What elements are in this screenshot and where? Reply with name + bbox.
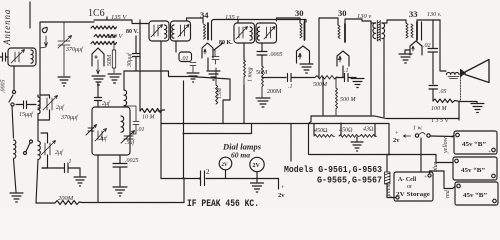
tube 30b filament (337, 51, 349, 66)
wire to right ground (459, 101, 477, 103)
svg-text:+: + (488, 150, 491, 155)
capacitor .0005 (antenna series) (0, 53, 8, 61)
rail lower mid (184, 124, 252, 134)
gang capacitor section 1 (370uuf) (43, 96, 58, 111)
antenna coupling squiggle (42, 27, 47, 32)
tube 1C6 filament (92, 48, 104, 66)
svg-text:100 M: 100 M (431, 106, 448, 112)
wire bottom rail to blue (389, 155, 453, 163)
capacitor .1 (cathode) (56, 164, 76, 173)
variable capacitor .5uf in box (121, 131, 135, 144)
coil antenna box (31, 50, 33, 63)
tube 33 plate (416, 22, 418, 40)
resistor 450 ohm a (314, 135, 335, 138)
resistor 1 meg (244, 60, 246, 85)
wire grid lead 30b (319, 18, 338, 55)
T1 secondary variable cap (178, 25, 189, 38)
battery box 3 (455, 182, 498, 205)
svg-text:50M: 50M (107, 54, 113, 66)
filament network box (309, 116, 390, 155)
junction dot avc (322, 77, 324, 79)
wire 15M bottom to rail (223, 100, 230, 124)
wire cap .1 tail (42, 168, 80, 176)
wire red (430, 171, 456, 189)
svg-text:yellow: yellow (443, 137, 449, 154)
resistor 43 ohm (360, 135, 377, 138)
variable capacitor in antenna box (11, 50, 25, 64)
svg-text:red: red (445, 189, 451, 198)
T2 secondary coil (257, 27, 259, 40)
lamp 2 (250, 157, 264, 171)
wire junction down (322, 78, 324, 116)
wire box right edge (388, 124, 390, 155)
T1 primary box (149, 21, 169, 41)
switch 1w contact a (415, 134, 418, 137)
svg-text:80 V.: 80 V. (126, 29, 139, 35)
ground under .0025 (113, 187, 127, 196)
wire avc to cap (336, 77, 340, 79)
wire coil top (123, 71, 125, 90)
switch wave band contact a (24, 152, 27, 155)
junction dot resistor chain (340, 123, 342, 125)
gang capacitor section 2 (41, 141, 56, 156)
tube 30a filament (297, 46, 310, 63)
svg-text:500 M: 500 M (340, 97, 357, 103)
svg-text:G-9565,G-9567: G-9565,G-9567 (317, 175, 382, 186)
switch 1w lever (419, 133, 425, 135)
svg-text:45v “B”: 45v “B” (462, 141, 486, 148)
svg-text:.02: .02 (423, 43, 431, 49)
speaker driver (461, 70, 466, 77)
svg-text:500M: 500M (313, 82, 328, 88)
junction lamp bus dot (199, 178, 201, 180)
wire T2 sec top to grid (277, 18, 301, 23)
coil L2 oscillator antenna (38, 97, 40, 114)
svg-text:2μf: 2μf (102, 100, 111, 107)
switch lever (9, 95, 13, 102)
capacitor 15uuf (16, 101, 34, 109)
svg-text:15M: 15M (217, 87, 223, 99)
wire T2 sec bottom (261, 43, 263, 51)
filament arrow 30b (338, 56, 341, 62)
svg-text:370μμf: 370μμf (65, 46, 84, 53)
speaker coil (447, 72, 460, 74)
antenna tuning box (8, 48, 36, 66)
T1 secondary coil (172, 25, 174, 38)
tube 33 envelope (421, 22, 423, 40)
ground under L1 (10, 193, 23, 202)
wire primary top (362, 19, 376, 39)
svg-text:2μf: 2μf (55, 149, 64, 156)
tube 34 plate (207, 23, 209, 40)
wire 1C6 plate to T1 (107, 20, 149, 24)
T2 secondary variable cap (264, 27, 275, 40)
wire 30b filament stem (342, 66, 344, 78)
svg-text:.0005: .0005 (269, 52, 283, 58)
capacitor screen bypass (212, 50, 219, 64)
svg-text:45v “B”: 45v “B” (461, 167, 485, 174)
wire AVC bus (262, 77, 315, 79)
svg-text:200M: 200M (267, 89, 282, 95)
junction dot box right (388, 154, 390, 156)
speaker horn (465, 60, 489, 83)
tube 30a plate (304, 22, 306, 40)
battery box 1 (454, 131, 497, 154)
wire 1meg to rail (243, 85, 245, 124)
capacitor .0005 detector (257, 52, 267, 67)
wire 34 filament to ground (207, 58, 209, 70)
junction dot 100M (458, 101, 460, 103)
wire grid return bus (190, 77, 230, 101)
rail y115 (311, 116, 459, 119)
svg-text:34: 34 (200, 10, 209, 20)
tube 1C6 grid 3 (91, 42, 117, 45)
transformer primary coil (373, 23, 376, 39)
ground under 50M (108, 74, 121, 83)
battery box 2 (453, 157, 497, 180)
svg-text:130 v.: 130 v. (427, 12, 441, 18)
wire switch to battery 1 (431, 135, 455, 138)
speaker coil core (448, 77, 459, 79)
lamp bus (161, 178, 279, 180)
resistor 500M horizontal (315, 76, 339, 80)
T1 secondary box (171, 21, 191, 41)
coil L2 lower section (38, 141, 40, 159)
junction dots x183 (183, 123, 185, 125)
transformer core (377, 21, 380, 42)
rail B plus (161, 123, 309, 125)
resistor 200M vertical (262, 66, 264, 97)
T2 secondary box (256, 23, 277, 43)
wire gang1 bottom (38, 110, 50, 120)
tube 1C6 plate (94, 17, 107, 20)
wire coil to ground (14, 159, 17, 192)
svg-text:.1: .1 (67, 159, 72, 165)
svg-text:33: 33 (409, 9, 418, 19)
svg-text:or: or (407, 184, 412, 190)
capacitor 30uuf (133, 36, 140, 71)
A cell box (394, 172, 433, 201)
wire gang2 top (41, 133, 48, 143)
wire 100M junction down (458, 102, 460, 121)
wire B minus drop (290, 124, 292, 162)
tube 34 filament (202, 43, 213, 58)
svg-text:2v: 2v (393, 137, 400, 144)
wire T1 sec to 34 grid (187, 18, 204, 23)
T1 primary variable cap (151, 25, 163, 38)
resistor 200M bottom left (55, 201, 82, 205)
resistor 50M (grid leak) (112, 41, 115, 73)
ground under 33 (399, 54, 412, 63)
svg-text:200M: 200M (58, 195, 74, 202)
filament arrow 33 (412, 46, 414, 51)
resistor 450 ohm b (339, 135, 360, 138)
ground right (471, 102, 484, 113)
capacitor .01 osc (124, 106, 139, 134)
svg-text:2: 2 (206, 168, 210, 176)
wire L2 top (34, 95, 38, 141)
capacitor .0025 (113, 155, 127, 186)
T1 primary coil (165, 25, 167, 38)
oscillator box (92, 107, 130, 155)
wire 30b plate top (345, 19, 362, 24)
wire 34 plate to top bus (212, 20, 239, 23)
filament plus mark (95, 56, 98, 59)
capacitor 2uf top (95, 83, 102, 107)
variable capacitor 2uf in box (95, 129, 107, 142)
capacitor under .01 box (186, 62, 196, 73)
svg-text:blue: blue (433, 161, 439, 172)
svg-text:450Ω: 450Ω (314, 127, 328, 134)
T2 primary box (234, 23, 255, 43)
resistor 500M vertical (336, 78, 338, 116)
svg-text:43Ω: 43Ω (363, 126, 374, 133)
ground under trimmer (58, 77, 70, 86)
ground under 34 (207, 71, 220, 80)
wire green hatched rheostat (387, 155, 389, 173)
svg-text:10 M: 10 M (142, 115, 156, 121)
svg-text:2μf: 2μf (56, 104, 65, 111)
svg-text:30μμf: 30μμf (126, 52, 133, 68)
scan noise (0, 0, 1, 1)
switch lever b (26, 143, 30, 152)
svg-text:+: + (424, 175, 427, 180)
wire rheostat to A minus (387, 184, 396, 198)
svg-text:.05: .05 (439, 89, 447, 95)
ground under .1 (74, 177, 86, 186)
svg-text:30: 30 (338, 8, 347, 18)
resistor 15M (216, 68, 218, 104)
wire osc box bottom to bus (97, 155, 99, 203)
capacitor .1 af (340, 74, 356, 82)
coil L1 lower left (14, 140, 16, 158)
wire plate bus down (440, 20, 446, 71)
svg-text:.0025: .0025 (125, 158, 139, 164)
capacitor .05 (429, 86, 438, 102)
svg-text:2v: 2v (278, 192, 285, 199)
switch contact 2 (11, 103, 14, 106)
filament arrow 34 (204, 49, 206, 54)
ground under 1C6 filament (92, 76, 105, 85)
wire box to switch (13, 66, 15, 90)
wire switch to A cell (420, 138, 422, 172)
switch contact 1 (12, 90, 15, 93)
wire primary bottom lead (370, 39, 372, 116)
wire arrow to coil (45, 36, 48, 47)
coil osc tank in box (121, 116, 124, 132)
svg-text:1C6: 1C6 (88, 8, 105, 19)
svg-text:1 w.: 1 w. (413, 126, 423, 132)
resistor 100M (433, 99, 458, 103)
svg-text:2V: 2V (222, 163, 229, 168)
ground under detector (256, 98, 270, 107)
svg-text:Antenna: Antenna (2, 9, 12, 46)
svg-text:.1: .1 (344, 68, 349, 74)
wire voice coil down (460, 77, 462, 101)
wire chain taps (314, 124, 375, 137)
tube 33 filament (410, 41, 422, 55)
svg-text:2V Storage: 2V Storage (396, 192, 430, 198)
switch 1w contact b (427, 134, 430, 137)
wire vertical x183 (183, 81, 185, 178)
wire gang2 bottom (42, 155, 48, 168)
tube 1C6 grid 1 (91, 26, 117, 29)
svg-text:2V: 2V (253, 163, 261, 169)
wire T1 sec bottom lead (175, 41, 177, 52)
label +2v battery (404, 135, 411, 137)
wire 33 plate to top (417, 20, 440, 22)
trimmer small in box (86, 125, 97, 136)
svg-text:1 meg: 1 meg (248, 68, 254, 83)
svg-text:30: 30 (295, 8, 304, 18)
wire switch to lower coil (12, 106, 14, 138)
capacitor 370uuf osc trimmer (58, 22, 72, 76)
svg-text:80 K.: 80 K. (219, 40, 233, 46)
wire secondary top to 33 grid (382, 20, 406, 23)
tube 1C6 grid 2 (94, 35, 116, 38)
boxed label .01 (179, 52, 192, 62)
svg-text:130 v: 130 v (357, 13, 371, 20)
svg-text:Models G-9561,G-9563: Models G-9561,G-9563 (284, 164, 382, 175)
capacitor .1 audio coupling (288, 74, 296, 82)
wire top bus 135v (238, 20, 306, 24)
filament arrow 30a (298, 53, 301, 59)
svg-text:1 3 5 V: 1 3 5 V (431, 118, 449, 124)
resistor 10M (140, 109, 165, 113)
T2 primary coil (250, 27, 252, 40)
wire yellow drop (452, 135, 454, 137)
wire arrow junction (40, 47, 46, 48)
svg-text:.5μf: .5μf (125, 139, 136, 146)
svg-text:.0005: .0005 (1, 80, 7, 94)
wire antenna lead (29, 2, 31, 28)
capacitor 2uf filament (201, 171, 205, 186)
wire T2 primary bottom (243, 43, 245, 60)
wire 30a plate top (304, 20, 306, 23)
tube 33 grid 1 (406, 23, 408, 38)
switch wave band contact b (30, 140, 33, 143)
svg-text:2μf: 2μf (99, 135, 108, 142)
svg-text:370μμf: 370μμf (60, 114, 79, 121)
transformer secondary coil (382, 23, 385, 39)
svg-text:IF PEAK 456 KC.: IF PEAK 456 KC. (187, 199, 259, 208)
svg-text:45v “B”: 45v “B” (463, 192, 487, 199)
tube 30b grid (338, 25, 340, 39)
wire +2v tap (278, 179, 280, 190)
svg-text:60 ma: 60 ma (231, 151, 250, 160)
svg-text:A- Cell: A- Cell (398, 177, 416, 183)
wire bottom bus to mid (82, 179, 184, 203)
ground under 30a (300, 64, 313, 73)
tube 34 envelope (211, 22, 213, 40)
coil osc pickup (124, 90, 127, 106)
svg-text:.1: .1 (288, 84, 293, 90)
ground center tap (351, 137, 363, 151)
rheostat hatched (385, 172, 391, 184)
wire ground bus bottom left (36, 202, 55, 204)
ground right of cap (351, 79, 364, 88)
wire grid line top (40, 22, 94, 95)
resistor 80K diagonal (214, 43, 223, 50)
lamp 1 (219, 157, 232, 170)
wire gang1 top (38, 95, 50, 108)
tube 33 grid 2 (411, 24, 413, 38)
ground under .01 cap (187, 73, 199, 82)
wire L2 bottom to bus (36, 160, 38, 204)
capacitor .02 (428, 20, 438, 84)
svg-text:.01: .01 (137, 127, 145, 133)
lamp stems (226, 170, 258, 179)
tube 30a grid (300, 23, 302, 38)
wire grid lead down to avc (318, 55, 320, 78)
tube 30b plate (344, 24, 346, 42)
wire 30uuf down to 10M (124, 20, 190, 179)
wire 33 filament to ground (405, 50, 410, 53)
wire secondary bottom lead (383, 39, 385, 118)
ground under lamp 2 (251, 179, 264, 193)
svg-text:.01: .01 (181, 56, 189, 62)
T2 primary variable cap (236, 27, 248, 40)
wire filament to ground (97, 60, 100, 74)
svg-text:15μμf: 15μμf (19, 111, 34, 118)
tube 34 grid (204, 24, 206, 39)
